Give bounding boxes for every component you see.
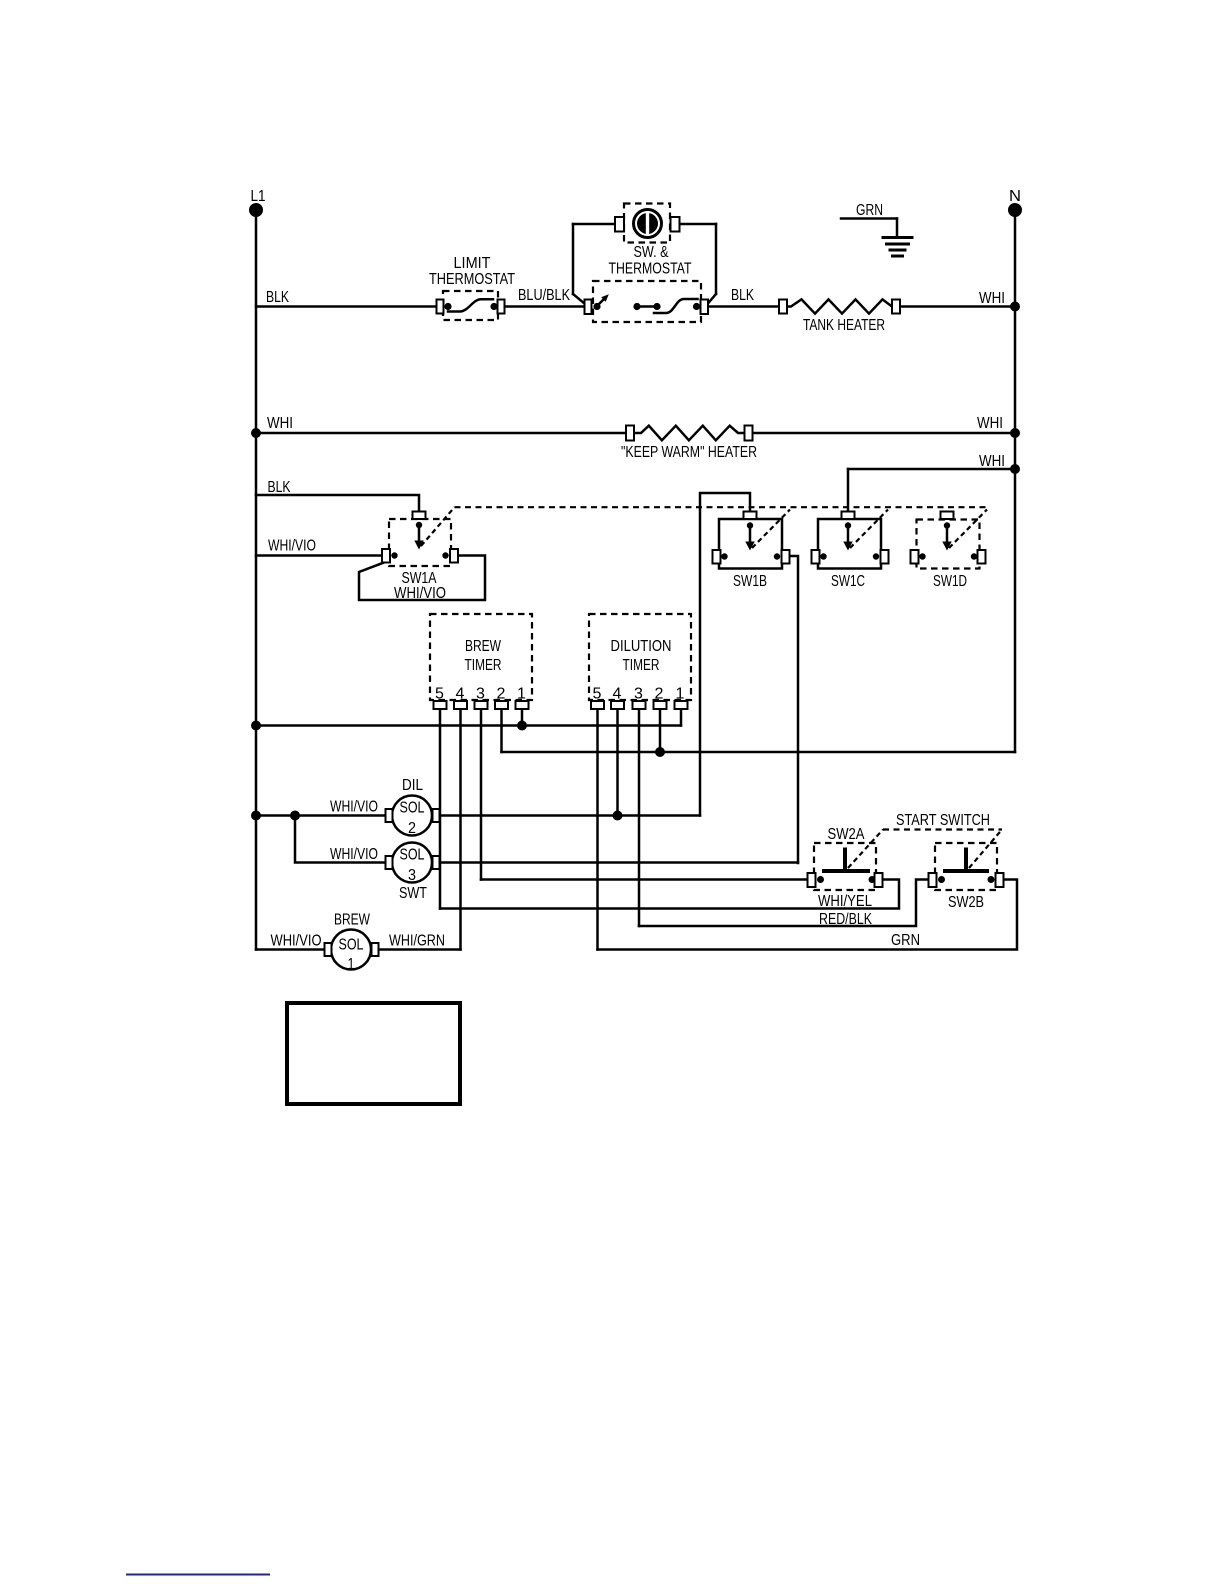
svg-text:WHI: WHI xyxy=(979,290,1005,307)
svg-text:1: 1 xyxy=(348,956,355,973)
svg-text:WHI/YEL: WHI/YEL xyxy=(818,893,872,910)
svg-text:WHI/VIO: WHI/VIO xyxy=(330,799,378,816)
svg-text:1: 1 xyxy=(676,686,685,703)
svg-text:BREW: BREW xyxy=(465,638,502,655)
svg-text:START SWITCH: START SWITCH xyxy=(896,812,990,829)
svg-text:SW. &: SW. & xyxy=(634,244,669,261)
svg-text:SW2B: SW2B xyxy=(948,894,984,911)
svg-text:2: 2 xyxy=(408,820,416,837)
svg-text:2: 2 xyxy=(497,686,506,703)
svg-text:GRN: GRN xyxy=(891,932,920,949)
svg-text:3: 3 xyxy=(408,867,416,884)
svg-text:3: 3 xyxy=(634,686,643,703)
svg-text:WHI: WHI xyxy=(977,415,1003,432)
svg-text:THERMOSTAT: THERMOSTAT xyxy=(429,271,515,288)
svg-text:BLK: BLK xyxy=(268,479,291,496)
svg-text:SW2A: SW2A xyxy=(828,826,865,843)
svg-text:RED/BLK: RED/BLK xyxy=(819,911,872,928)
svg-text:5: 5 xyxy=(593,686,602,703)
svg-text:SOL: SOL xyxy=(400,847,425,864)
svg-text:5: 5 xyxy=(435,686,444,703)
svg-text:3: 3 xyxy=(476,686,485,703)
svg-text:SWT: SWT xyxy=(399,885,427,902)
svg-text:L1: L1 xyxy=(251,188,266,205)
svg-text:WHI/VIO: WHI/VIO xyxy=(330,846,378,863)
svg-text:WHI: WHI xyxy=(267,415,293,432)
svg-text:SOL: SOL xyxy=(339,937,364,954)
svg-text:"KEEP WARM" HEATER: "KEEP WARM" HEATER xyxy=(621,444,757,461)
svg-text:TIMER: TIMER xyxy=(623,657,660,674)
svg-text:THERMOSTAT: THERMOSTAT xyxy=(609,261,692,278)
svg-text:BREW: BREW xyxy=(334,912,371,929)
svg-text:WHI/VIO: WHI/VIO xyxy=(394,585,446,602)
svg-text:2: 2 xyxy=(655,686,664,703)
svg-text:SW1C: SW1C xyxy=(831,573,865,590)
svg-text:1: 1 xyxy=(517,686,526,703)
svg-text:BLK: BLK xyxy=(731,287,754,304)
svg-text:SOL: SOL xyxy=(400,800,425,817)
svg-text:WHI/VIO: WHI/VIO xyxy=(268,538,316,555)
svg-text:4: 4 xyxy=(613,686,622,703)
svg-text:SW1D: SW1D xyxy=(933,573,967,590)
svg-text:WHI/GRN: WHI/GRN xyxy=(389,933,445,950)
svg-text:LIMIT: LIMIT xyxy=(454,255,491,272)
svg-text:DIL: DIL xyxy=(402,777,423,794)
svg-text:WHI: WHI xyxy=(979,453,1005,470)
svg-text:WHI/VIO: WHI/VIO xyxy=(271,933,322,950)
svg-text:GRN: GRN xyxy=(856,202,883,219)
svg-text:BLU/BLK: BLU/BLK xyxy=(518,287,570,304)
svg-text:DILUTION: DILUTION xyxy=(611,638,672,655)
svg-text:4: 4 xyxy=(456,686,465,703)
svg-text:N: N xyxy=(1009,188,1021,205)
svg-text:TIMER: TIMER xyxy=(465,657,502,674)
svg-text:BLK: BLK xyxy=(266,289,289,306)
svg-text:SW1B: SW1B xyxy=(733,573,767,590)
svg-text:TANK HEATER: TANK HEATER xyxy=(803,317,885,334)
